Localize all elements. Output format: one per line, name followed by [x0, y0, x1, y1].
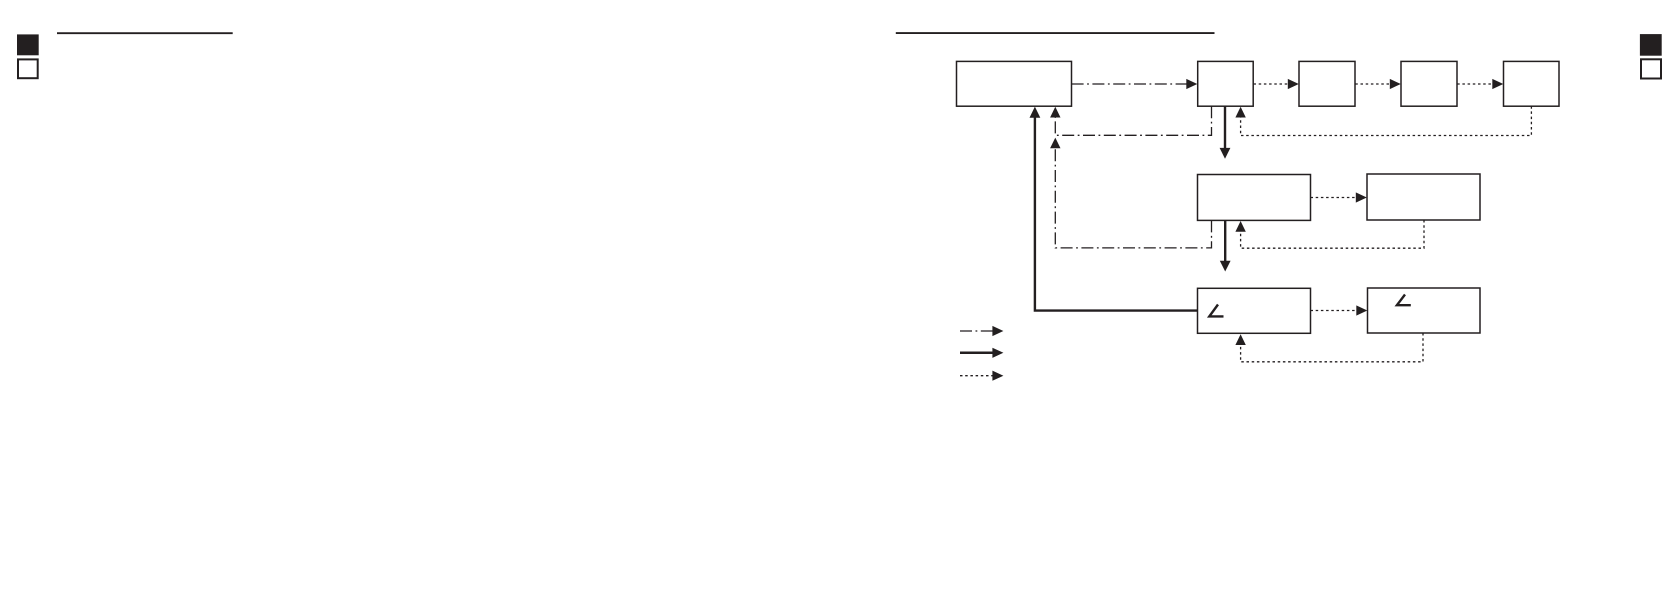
arrowhead up into B1 bottom — [1050, 107, 1060, 118]
legend dash-dot arrow — [960, 330, 993, 332]
glyph in box B9 (angle mark) — [1397, 295, 1411, 306]
dotted arrow B8 to B9 — [1311, 310, 1358, 312]
heading rule: left page — [57, 32, 233, 34]
arrowhead up at junction below feedback rule — [1050, 138, 1060, 149]
corner marker: filled square top-right — [1640, 34, 1662, 56]
box B6 (middle row, left) — [1198, 175, 1311, 221]
solid arrow B6 down — [1224, 220, 1226, 261]
arrowhead up into B2 bottom — [1235, 107, 1245, 118]
corner marker: open square top-left — [18, 59, 38, 78]
box B1 (top-left large process box) — [957, 61, 1072, 106]
dotted arrow B2 to B3 — [1254, 83, 1289, 85]
legend dotted arrow — [960, 375, 993, 377]
solid arrow B2 down — [1224, 106, 1226, 148]
dotted feedback wire B5 bottom down — [1241, 106, 1532, 135]
box B8 (bottom row, left) — [1198, 288, 1311, 333]
box B2 (top row, second) — [1198, 61, 1254, 106]
dotted arrow B6 to B7 — [1311, 197, 1357, 199]
dash-dot feedback wire B6 bottom up left channel — [1055, 147, 1211, 248]
arrowhead up into B6 bottom — [1235, 221, 1245, 232]
box B5 (top row, fifth) — [1504, 61, 1560, 106]
arrowhead up into B1 bottom — [1030, 107, 1041, 118]
dotted arrow B4 to B5 — [1457, 83, 1493, 85]
box B9 (bottom row, right) — [1368, 288, 1481, 333]
dash-dot feedback wire B2 bottom to B1 bottom — [1055, 106, 1211, 135]
arrowhead up into B8 bottom — [1235, 334, 1245, 345]
corner marker: open square top-right — [1641, 59, 1661, 78]
dotted feedback wire B7 bottom to B6 bottom — [1241, 220, 1424, 248]
dash-dot arrow B1 to B2 — [1072, 83, 1187, 85]
legend solid arrow — [960, 352, 993, 355]
dotted arrow B3 to B4 — [1355, 83, 1390, 85]
box B3 (top row, third) — [1299, 61, 1355, 106]
box B7 (middle row, right) — [1367, 174, 1480, 220]
glyph in box B8 (angle mark) — [1209, 305, 1223, 317]
corner marker: filled square top-left — [17, 34, 39, 55]
heading rule: right page — [896, 32, 1215, 34]
box B4 (top row, fourth) — [1401, 61, 1457, 106]
solid return wire from B8 left to B1 bottom — [1035, 117, 1198, 311]
dotted feedback wire B9 bottom to B8 bottom — [1241, 333, 1423, 362]
